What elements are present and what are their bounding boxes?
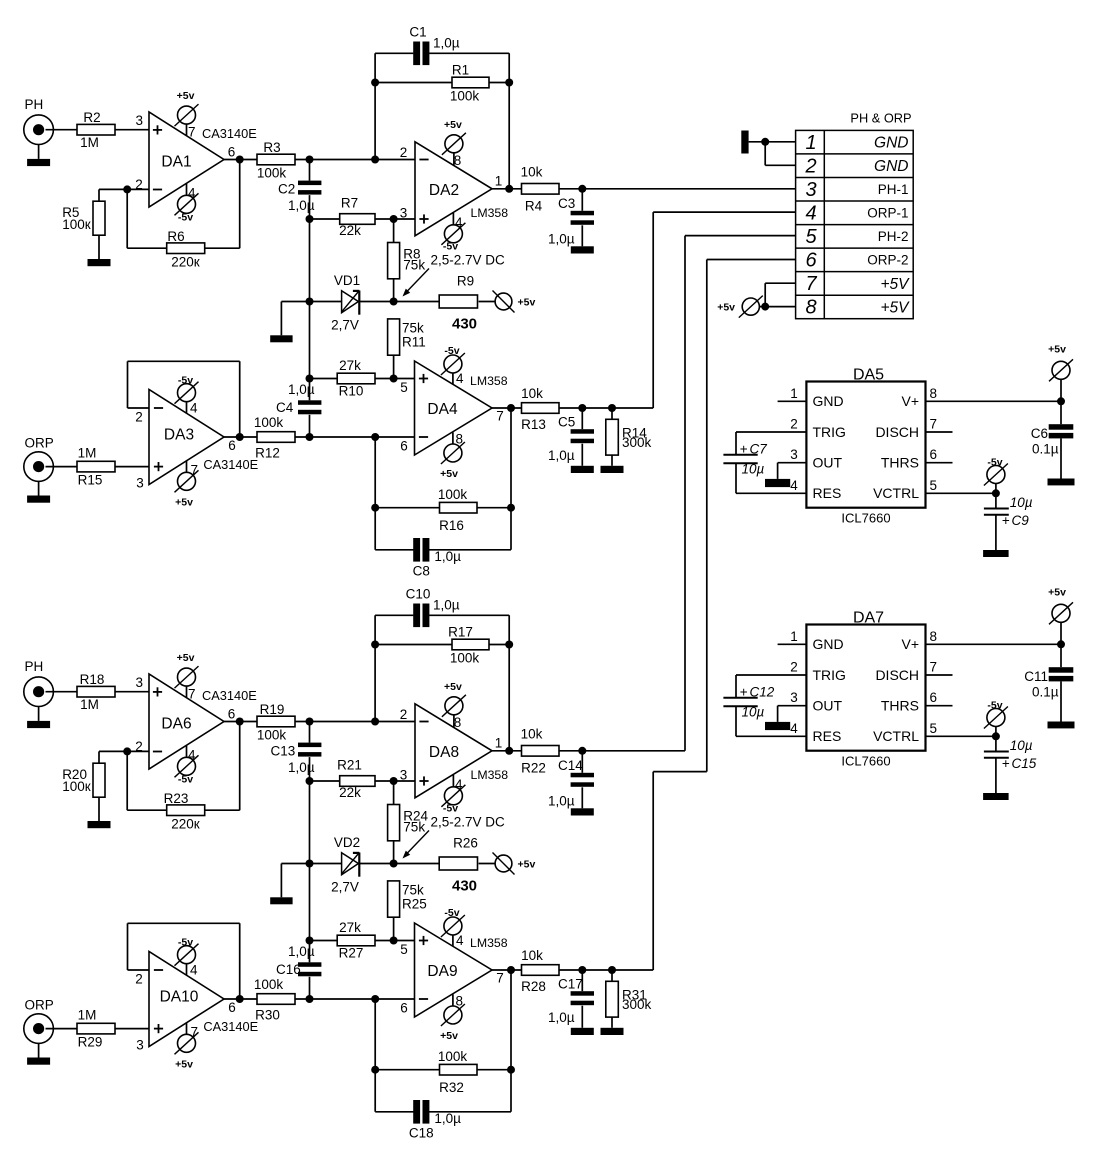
wire bbox=[359, 863, 439, 865]
pin 7 DISCH stub (DA5) bbox=[926, 431, 953, 433]
resistor R9 430 bbox=[439, 274, 477, 333]
svg-text:430: 430 bbox=[452, 878, 477, 895]
connector pin 2 net GND bbox=[874, 158, 908, 175]
connector pin 6 number bbox=[805, 250, 817, 272]
svg-text:4: 4 bbox=[456, 933, 464, 948]
svg-text:DA10: DA10 bbox=[160, 989, 199, 1006]
svg-text:100к: 100к bbox=[62, 217, 91, 232]
svg-text:1,0µ: 1,0µ bbox=[434, 1111, 461, 1126]
node zener junction bbox=[390, 298, 398, 306]
capacitor C1 1,0u bbox=[375, 25, 509, 66]
resistor R32 100k bbox=[438, 1049, 477, 1095]
svg-text:VCTRL: VCTRL bbox=[873, 728, 919, 744]
wire bbox=[295, 998, 415, 1000]
op-amp DA6 CA3140E bbox=[149, 674, 224, 769]
svg-text:ICL7660: ICL7660 bbox=[841, 754, 890, 769]
power +5v (pin 7 of DA6) bbox=[175, 652, 199, 701]
power -5v (pin 4 of DA9) bbox=[441, 907, 465, 948]
wire bbox=[492, 188, 522, 190]
svg-text:+5v: +5v bbox=[440, 468, 458, 480]
svg-text:100к: 100к bbox=[62, 779, 91, 794]
capacitor C16 1,0u bbox=[276, 864, 321, 1000]
svg-text:6: 6 bbox=[930, 447, 938, 462]
svg-text:4: 4 bbox=[188, 186, 196, 201]
wire bbox=[127, 751, 167, 810]
capacitor C10 1,0u bbox=[375, 587, 509, 628]
op-amp DA4 LM358 bbox=[415, 361, 493, 455]
svg-text:3: 3 bbox=[400, 206, 408, 221]
node junction bbox=[505, 641, 513, 649]
node junction bbox=[761, 138, 769, 146]
svg-text:ICL7660: ICL7660 bbox=[841, 511, 890, 526]
svg-text:C16: C16 bbox=[276, 962, 301, 977]
pin 2 label (DA10) bbox=[135, 972, 143, 987]
svg-text:V+: V+ bbox=[901, 393, 919, 409]
pin 2 label (DA5) bbox=[790, 417, 798, 432]
svg-text:C2: C2 bbox=[278, 182, 295, 197]
svg-text:100k: 100k bbox=[254, 977, 284, 992]
svg-text:4: 4 bbox=[190, 401, 198, 416]
pin 2 label (DA8) bbox=[400, 707, 408, 722]
pin 1 label (DA2 output) bbox=[495, 173, 503, 188]
resistor R22 10k bbox=[521, 727, 559, 776]
svg-text:LM358: LM358 bbox=[470, 374, 508, 388]
wire bbox=[224, 159, 257, 161]
wire bbox=[295, 721, 415, 723]
wire bbox=[98, 235, 100, 259]
node junction bbox=[306, 375, 314, 383]
pin 3 label (DA10) bbox=[136, 1038, 144, 1053]
IC DA7 ICL7660 bbox=[806, 610, 925, 751]
ground (under PH BNC) bbox=[27, 721, 50, 728]
ground (under R31) bbox=[601, 1028, 624, 1035]
wire bbox=[205, 722, 240, 811]
ground (under R20) bbox=[88, 821, 111, 828]
svg-text:4: 4 bbox=[790, 478, 798, 493]
svg-text:R12: R12 bbox=[255, 446, 280, 461]
ground (under C11) bbox=[1048, 722, 1075, 729]
wire (V+ pin of DA5) bbox=[926, 400, 1062, 402]
svg-text:+: + bbox=[740, 684, 748, 699]
wire bbox=[559, 188, 582, 190]
svg-text:1,0µ: 1,0µ bbox=[548, 1010, 575, 1025]
pin 7 label (DA7) bbox=[930, 660, 938, 675]
svg-text:LM358: LM358 bbox=[471, 768, 509, 782]
svg-text:5: 5 bbox=[400, 942, 408, 957]
svg-text:10µ: 10µ bbox=[1010, 495, 1033, 510]
node junction bbox=[1057, 397, 1065, 405]
svg-text:1,0µ: 1,0µ bbox=[434, 549, 461, 564]
node DA8 output junction bbox=[505, 747, 513, 755]
wire bbox=[559, 969, 612, 971]
node DA6 output junction bbox=[236, 718, 244, 726]
node junction bbox=[390, 777, 398, 785]
svg-text:0.1µ: 0.1µ bbox=[1032, 684, 1059, 699]
svg-text:7: 7 bbox=[930, 417, 938, 432]
ground (under C14) bbox=[571, 808, 594, 815]
capacitor C14 1,0u bbox=[548, 751, 594, 809]
pin 6 label (DA3 output) bbox=[228, 438, 236, 453]
svg-text:R15: R15 bbox=[78, 473, 103, 488]
wire bbox=[310, 940, 338, 942]
svg-text:100k: 100k bbox=[450, 89, 480, 104]
svg-text:TRIG: TRIG bbox=[813, 667, 846, 683]
svg-text:DISCH: DISCH bbox=[875, 667, 919, 683]
svg-text:C9: C9 bbox=[1012, 513, 1030, 528]
pin 6 label (DA5) bbox=[930, 447, 938, 462]
svg-text:2,5-2.7V DC: 2,5-2.7V DC bbox=[431, 815, 506, 830]
pin 6 label (DA7) bbox=[930, 690, 938, 705]
wire bbox=[281, 864, 309, 898]
svg-text:+5v: +5v bbox=[175, 496, 193, 508]
power +5v (pin 8 of DA4) bbox=[440, 432, 465, 481]
power -5v (pin 4 of DA1) bbox=[175, 183, 199, 223]
wire bbox=[375, 507, 439, 509]
resistor R17 100k bbox=[375, 625, 509, 666]
svg-text:ORP-2: ORP-2 bbox=[867, 253, 908, 268]
power +5v (V+ of DA5) bbox=[1048, 344, 1073, 402]
svg-text:2: 2 bbox=[790, 417, 798, 432]
node junction bbox=[390, 375, 398, 383]
ground (under R14) bbox=[601, 466, 624, 473]
svg-text:75k: 75k bbox=[403, 819, 425, 834]
svg-text:VCTRL: VCTRL bbox=[873, 485, 919, 501]
svg-text:2: 2 bbox=[135, 410, 143, 425]
svg-text:OUT: OUT bbox=[813, 698, 843, 714]
resistor R27 27k bbox=[337, 920, 375, 961]
wire (TRIG-RES loop of DA5) bbox=[736, 432, 806, 493]
resistor R11 75k bbox=[388, 319, 426, 355]
connector pin 5 number bbox=[805, 226, 817, 248]
svg-text:10k: 10k bbox=[521, 948, 543, 963]
connector pin 5 net PH-2 bbox=[878, 229, 909, 244]
svg-text:3: 3 bbox=[790, 447, 798, 462]
capacitor C13 1,0u bbox=[271, 722, 322, 782]
wire bbox=[281, 302, 309, 336]
wire bbox=[310, 863, 342, 865]
resistor R2 1M bbox=[77, 110, 115, 150]
svg-text:100k: 100k bbox=[438, 1049, 468, 1064]
capacitor C2 1,0u bbox=[278, 160, 321, 220]
svg-text:R6: R6 bbox=[167, 229, 184, 244]
node junction bbox=[390, 937, 398, 945]
wire bbox=[46, 691, 78, 693]
svg-text:-5v: -5v bbox=[444, 907, 459, 919]
svg-text:3: 3 bbox=[790, 690, 798, 705]
wire bbox=[46, 466, 78, 468]
svg-text:3: 3 bbox=[400, 768, 408, 783]
svg-text:3: 3 bbox=[805, 179, 816, 201]
svg-text:100k: 100k bbox=[257, 728, 287, 743]
svg-text:1: 1 bbox=[790, 629, 798, 644]
pin 2 label (DA2) bbox=[400, 145, 408, 160]
svg-text:R1: R1 bbox=[452, 63, 469, 78]
capacitor C12 10u (pump) bbox=[723, 684, 774, 719]
svg-text:C15: C15 bbox=[1012, 756, 1037, 771]
svg-text:R2: R2 bbox=[83, 110, 100, 125]
pin 7 label (DA5) bbox=[930, 417, 938, 432]
wire bbox=[510, 408, 512, 550]
pin 3 label (DA2) bbox=[400, 206, 408, 221]
power +5v (pin 7 of DA10) bbox=[175, 1023, 199, 1071]
node PH label bbox=[25, 659, 44, 674]
svg-text:2,7V: 2,7V bbox=[331, 318, 359, 333]
svg-text:1M: 1M bbox=[78, 1008, 97, 1023]
svg-text:DA3: DA3 bbox=[164, 427, 194, 444]
svg-text:75k: 75k bbox=[402, 883, 424, 898]
svg-text:R32: R32 bbox=[439, 1080, 464, 1095]
svg-text:8: 8 bbox=[454, 153, 462, 168]
svg-text:R17: R17 bbox=[448, 625, 473, 640]
ground (under PH BNC) bbox=[27, 159, 50, 166]
pin 2 label (DA6) bbox=[135, 739, 143, 754]
svg-text:2: 2 bbox=[400, 707, 408, 722]
ground (under C15) bbox=[983, 793, 1009, 800]
op-amp DA9 type label LM358 bbox=[470, 936, 508, 950]
capacitor C17 1,0u bbox=[548, 970, 594, 1028]
svg-text:75k: 75k bbox=[402, 321, 424, 336]
svg-text:27k: 27k bbox=[339, 920, 361, 935]
svg-text:6: 6 bbox=[228, 707, 236, 722]
svg-text:+5v: +5v bbox=[444, 681, 462, 693]
wire bbox=[393, 355, 395, 378]
connector table title PH & ORP bbox=[850, 111, 911, 126]
svg-text:+5v: +5v bbox=[440, 1030, 458, 1042]
svg-text:+5v: +5v bbox=[177, 90, 195, 102]
svg-text:8: 8 bbox=[930, 629, 938, 644]
svg-text:R11: R11 bbox=[402, 335, 426, 350]
svg-text:1: 1 bbox=[790, 386, 798, 401]
svg-text:300k: 300k bbox=[622, 435, 652, 450]
svg-text:C18: C18 bbox=[409, 1126, 434, 1141]
svg-text:-5v: -5v bbox=[178, 937, 193, 949]
wire bbox=[559, 407, 612, 409]
wire bbox=[309, 219, 311, 302]
pin 3 label (DA1) bbox=[136, 113, 144, 128]
wire bbox=[205, 160, 240, 249]
svg-text:V+: V+ bbox=[901, 636, 919, 652]
svg-text:ORP: ORP bbox=[25, 998, 54, 1013]
svg-text:+5v: +5v bbox=[518, 859, 536, 871]
op-amp DA8 type label LM358 bbox=[471, 768, 509, 782]
wire bbox=[310, 301, 342, 303]
svg-text:GND: GND bbox=[874, 135, 908, 152]
svg-text:DA2: DA2 bbox=[429, 182, 459, 199]
power -5v (pin 4 of DA3) bbox=[175, 375, 199, 416]
pin 7 DISCH stub (DA7) bbox=[926, 674, 953, 676]
svg-text:4: 4 bbox=[790, 721, 798, 736]
svg-text:DA6: DA6 bbox=[161, 716, 191, 733]
node PH label bbox=[25, 97, 44, 112]
pin 2 label (DA3) bbox=[135, 410, 143, 425]
svg-text:+: + bbox=[1002, 513, 1010, 528]
svg-text:8: 8 bbox=[454, 715, 462, 730]
wire (V+ pin of DA7) bbox=[926, 643, 1062, 645]
wire bbox=[99, 189, 127, 201]
connector pin 4 net ORP-1 bbox=[867, 206, 908, 221]
svg-text:10k: 10k bbox=[521, 727, 543, 742]
svg-text:C10: C10 bbox=[406, 587, 431, 602]
node junction bbox=[1057, 640, 1065, 648]
svg-text:R19: R19 bbox=[260, 702, 285, 717]
wire bbox=[759, 283, 795, 306]
capacitor C7 10u (pump) bbox=[723, 441, 767, 476]
resistor R31 300k bbox=[606, 970, 652, 1028]
svg-text:220к: 220к bbox=[171, 255, 200, 270]
node junction bbox=[371, 995, 379, 1003]
svg-text:R9: R9 bbox=[457, 274, 474, 289]
svg-text:PH: PH bbox=[25, 659, 44, 674]
wire bbox=[127, 189, 167, 248]
power -5v (VCTRL of DA7) bbox=[984, 700, 1008, 737]
svg-text:7: 7 bbox=[496, 409, 504, 424]
svg-text:DA1: DA1 bbox=[161, 154, 191, 171]
svg-text:+5v: +5v bbox=[1048, 587, 1066, 599]
wire bbox=[295, 436, 415, 438]
wire bbox=[115, 691, 149, 693]
svg-text:CA3140E: CA3140E bbox=[202, 688, 257, 703]
ground (under C3) bbox=[571, 246, 594, 253]
wire bbox=[374, 999, 376, 1112]
svg-text:22k: 22k bbox=[339, 223, 361, 238]
resistor R25 75k bbox=[388, 881, 427, 917]
svg-text:2,7V: 2,7V bbox=[331, 880, 359, 895]
pin 7 label (DA9 output) bbox=[496, 971, 504, 986]
svg-text:27k: 27k bbox=[339, 358, 361, 373]
node DA9 output junction bbox=[507, 966, 515, 974]
svg-text:R30: R30 bbox=[255, 1008, 280, 1023]
svg-text:7: 7 bbox=[930, 660, 938, 675]
node junction bbox=[505, 79, 513, 87]
node junction bbox=[371, 718, 379, 726]
svg-text:RES: RES bbox=[813, 485, 842, 501]
svg-text:8: 8 bbox=[456, 432, 464, 447]
op-amp DA9 LM358 bbox=[415, 923, 493, 1017]
wire bbox=[375, 378, 415, 380]
resistor R23 220k bbox=[164, 791, 205, 832]
svg-text:7: 7 bbox=[188, 687, 196, 702]
svg-text:2: 2 bbox=[400, 145, 408, 160]
wire bbox=[309, 781, 311, 864]
svg-text:7: 7 bbox=[188, 125, 196, 140]
svg-text:GND: GND bbox=[813, 393, 844, 409]
svg-text:-5v: -5v bbox=[987, 700, 1002, 712]
zener diode VD2 2,7V bbox=[331, 835, 360, 895]
op-amp DA1 CA3140E bbox=[149, 112, 224, 207]
wire bbox=[375, 1069, 439, 1071]
pin 6 label (DA9) bbox=[400, 1001, 408, 1016]
node junction bbox=[507, 504, 515, 512]
power +5v (V+ of DA7) bbox=[1048, 587, 1073, 645]
power -5v (pin 4 of DA10) bbox=[175, 937, 199, 978]
connector pin 4 number bbox=[805, 203, 816, 225]
pin 7 label (DA4 output) bbox=[496, 409, 504, 424]
node A junction bbox=[306, 718, 314, 726]
pin 3 label (DA6) bbox=[136, 675, 144, 690]
svg-text:100k: 100k bbox=[450, 651, 480, 666]
svg-text:R16: R16 bbox=[439, 518, 464, 533]
power -5v (pin 4 of DA2) bbox=[441, 213, 465, 252]
power +5v (connector pins 7-8) bbox=[717, 296, 763, 318]
wire (VCTRL pin of DA7) bbox=[926, 735, 996, 737]
svg-text:+5v: +5v bbox=[175, 1058, 193, 1070]
pin 1 label (DA8 output) bbox=[495, 735, 503, 750]
svg-text:-5v: -5v bbox=[443, 240, 458, 252]
svg-text:R22: R22 bbox=[521, 761, 546, 776]
wire bbox=[46, 129, 78, 131]
resistor R21 22k bbox=[337, 758, 375, 801]
connector pin 8 number bbox=[805, 297, 816, 319]
pin 5 label (DA4) bbox=[400, 380, 408, 395]
pin 3 label (DA8) bbox=[400, 768, 408, 783]
pin 5 label (DA9) bbox=[400, 942, 408, 957]
node junction bbox=[306, 937, 314, 945]
svg-text:4: 4 bbox=[805, 203, 816, 225]
node junction bbox=[608, 966, 616, 974]
wire bbox=[492, 969, 522, 971]
svg-text:DA5: DA5 bbox=[853, 367, 884, 384]
capacitor C3 1,0u bbox=[548, 189, 594, 247]
ground (under R5) bbox=[88, 259, 111, 266]
svg-text:6: 6 bbox=[930, 690, 938, 705]
wire bbox=[127, 188, 149, 190]
svg-text:10k: 10k bbox=[521, 386, 543, 401]
pin 2 label (DA7) bbox=[790, 660, 798, 675]
svg-text:-5v: -5v bbox=[443, 802, 458, 814]
svg-text:C11: C11 bbox=[1024, 669, 1048, 684]
node junction bbox=[578, 185, 586, 193]
connector pin 8 net +5V bbox=[880, 299, 910, 316]
svg-text:+5V: +5V bbox=[880, 276, 910, 293]
op-amp DA8 LM358 bbox=[415, 704, 492, 798]
svg-text:300k: 300k bbox=[622, 997, 652, 1012]
svg-text:430: 430 bbox=[452, 316, 477, 333]
node DA1 output junction bbox=[236, 156, 244, 164]
svg-text:CA3140E: CA3140E bbox=[203, 1019, 258, 1034]
svg-text:+: + bbox=[740, 441, 748, 456]
op-amp DA2 type label LM358 bbox=[471, 206, 509, 220]
svg-text:+5v: +5v bbox=[444, 119, 462, 131]
svg-text:C4: C4 bbox=[276, 400, 294, 415]
node junction bbox=[306, 298, 314, 306]
resistor R28 10k bbox=[521, 948, 559, 994]
op-amp DA6 type label CA3140E bbox=[202, 688, 257, 703]
svg-text:DA4: DA4 bbox=[427, 401, 458, 418]
resistor R26 430 bbox=[439, 836, 478, 895]
wire bbox=[99, 751, 127, 763]
pin 6 label (DA10 output) bbox=[228, 1000, 236, 1015]
svg-text:R29: R29 bbox=[78, 1035, 103, 1050]
connector PH (pH probe BNC input) bbox=[24, 677, 54, 721]
svg-text:CA3140E: CA3140E bbox=[202, 126, 257, 141]
capacitor C6 0.1u bbox=[1031, 401, 1074, 478]
wire (TRIG-RES loop of DA7) bbox=[736, 675, 806, 736]
svg-text:10k: 10k bbox=[521, 165, 543, 180]
svg-text:7: 7 bbox=[496, 971, 504, 986]
svg-text:1,0µ: 1,0µ bbox=[433, 36, 460, 51]
wire bbox=[749, 141, 796, 143]
svg-text:R7: R7 bbox=[341, 196, 358, 211]
capacitor C9 10u bbox=[984, 493, 1033, 550]
svg-text:3: 3 bbox=[136, 675, 144, 690]
resistor R29 1M bbox=[77, 1008, 115, 1050]
op-amp DA10 CA3140E bbox=[149, 952, 224, 1047]
svg-text:3: 3 bbox=[136, 476, 144, 491]
svg-text:5: 5 bbox=[930, 721, 938, 736]
svg-text:8: 8 bbox=[805, 297, 816, 319]
capacitor C4 1,0u bbox=[276, 302, 321, 438]
resistor R7 22k bbox=[339, 196, 375, 239]
